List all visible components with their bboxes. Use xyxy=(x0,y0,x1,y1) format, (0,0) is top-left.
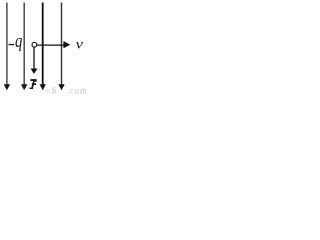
force vector F arrowhead xyxy=(31,69,38,74)
svg-text:v: v xyxy=(76,37,84,53)
svg-text:com: com xyxy=(70,85,87,95)
field line E2 arrowhead xyxy=(21,84,27,90)
field line E3 (wire) xyxy=(42,3,44,86)
label F middle bar xyxy=(32,83,36,85)
field line E4 arrowhead xyxy=(58,84,64,90)
field line E4 (wire) xyxy=(61,3,63,86)
force vector F shaft (wire) xyxy=(33,47,35,69)
velocity vector v arrowhead xyxy=(63,41,70,48)
watermark dot xyxy=(67,92,69,94)
charge -q circle xyxy=(32,42,37,47)
field line E3 arrowhead xyxy=(40,84,46,90)
field line E1 (wire) xyxy=(6,3,8,86)
background xyxy=(0,0,87,95)
label F foot serif xyxy=(30,88,33,89)
label F top bar xyxy=(30,79,36,81)
label F top bar right serif xyxy=(35,81,36,82)
field line E1 arrowhead xyxy=(4,84,10,90)
label -q minus sign xyxy=(9,44,15,45)
velocity vector v shaft (wire) xyxy=(37,44,64,46)
svg-text:q: q xyxy=(15,30,22,51)
field line E2 (wire) xyxy=(23,3,25,86)
svg-text:S: S xyxy=(52,85,57,95)
label F stem xyxy=(31,81,35,88)
